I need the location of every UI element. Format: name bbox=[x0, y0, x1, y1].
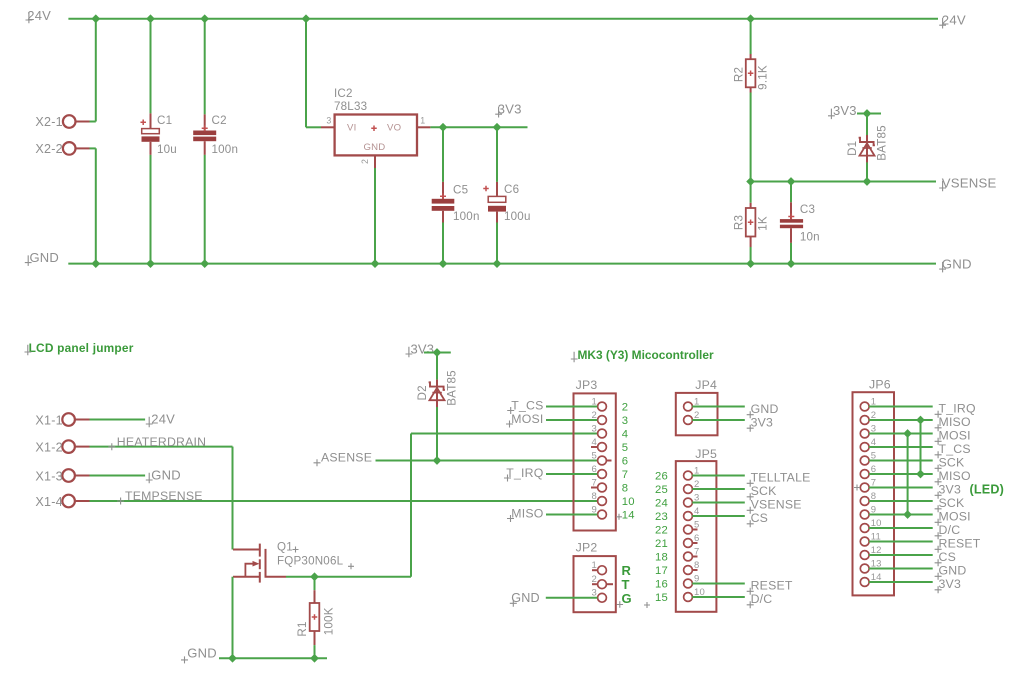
svg-text:GND: GND bbox=[939, 564, 967, 578]
svg-text:MOSI: MOSI bbox=[939, 510, 971, 524]
svg-text:3: 3 bbox=[326, 116, 331, 126]
svg-text:15: 15 bbox=[655, 592, 668, 604]
svg-text:JP3: JP3 bbox=[576, 378, 598, 392]
svg-text:16: 16 bbox=[655, 579, 668, 591]
svg-text:JP2: JP2 bbox=[576, 540, 598, 554]
svg-text:100u: 100u bbox=[504, 210, 531, 223]
svg-text:FQP30N06L: FQP30N06L bbox=[277, 554, 344, 567]
svg-text:TELLTALE: TELLTALE bbox=[751, 471, 811, 485]
svg-text:24V: 24V bbox=[27, 8, 51, 23]
svg-text:SCK: SCK bbox=[939, 496, 965, 510]
svg-text:X2-2: X2-2 bbox=[35, 142, 62, 156]
svg-text:18: 18 bbox=[655, 552, 668, 564]
svg-text:100n: 100n bbox=[212, 143, 239, 156]
svg-text:X2-1: X2-1 bbox=[35, 115, 62, 129]
svg-text:CS: CS bbox=[751, 511, 768, 525]
svg-text:JP5: JP5 bbox=[695, 447, 717, 461]
svg-text:100K: 100K bbox=[322, 607, 335, 635]
svg-text:GND: GND bbox=[364, 142, 386, 153]
svg-text:GND: GND bbox=[187, 645, 217, 660]
svg-text:MISO: MISO bbox=[511, 506, 543, 520]
svg-text:4: 4 bbox=[622, 429, 628, 441]
svg-text:21: 21 bbox=[655, 538, 668, 550]
svg-text:MK3 (Y3) Micocontroller: MK3 (Y3) Micocontroller bbox=[578, 348, 714, 362]
svg-text:9.1K: 9.1K bbox=[757, 65, 770, 90]
svg-text:2: 2 bbox=[360, 159, 370, 164]
svg-text:TEMPSENSE: TEMPSENSE bbox=[125, 489, 203, 503]
svg-text:C6: C6 bbox=[504, 183, 519, 196]
svg-text:24: 24 bbox=[655, 498, 668, 510]
svg-text:R: R bbox=[622, 563, 632, 578]
svg-text:24V: 24V bbox=[151, 411, 175, 426]
svg-text:D1: D1 bbox=[846, 141, 859, 156]
svg-text:X1-1: X1-1 bbox=[35, 413, 62, 427]
svg-text:8: 8 bbox=[622, 483, 628, 495]
svg-text:SCK: SCK bbox=[939, 456, 965, 470]
svg-text:25: 25 bbox=[655, 484, 668, 496]
svg-text:10u: 10u bbox=[157, 143, 177, 156]
svg-text:C2: C2 bbox=[212, 114, 227, 127]
svg-text:VI: VI bbox=[347, 123, 356, 134]
svg-text:CS: CS bbox=[939, 550, 956, 564]
svg-text:D2: D2 bbox=[416, 385, 429, 400]
svg-text:JP6: JP6 bbox=[869, 378, 891, 392]
svg-text:LCD panel jumper: LCD panel jumper bbox=[29, 341, 134, 355]
svg-text:GND: GND bbox=[30, 250, 60, 265]
svg-text:R3: R3 bbox=[733, 215, 746, 230]
svg-text:T_IRQ: T_IRQ bbox=[506, 466, 543, 480]
svg-text:17: 17 bbox=[655, 565, 668, 577]
svg-text:SCK: SCK bbox=[751, 484, 777, 498]
svg-text:5: 5 bbox=[592, 450, 597, 461]
svg-text:14: 14 bbox=[622, 510, 635, 522]
svg-text:RESET: RESET bbox=[751, 579, 793, 593]
svg-text:T_CS: T_CS bbox=[511, 398, 543, 412]
svg-text:D/C: D/C bbox=[751, 592, 773, 606]
svg-text:23: 23 bbox=[655, 511, 668, 523]
svg-text:D/C: D/C bbox=[939, 523, 961, 537]
svg-text:C3: C3 bbox=[800, 203, 815, 216]
svg-text:22: 22 bbox=[655, 525, 668, 537]
svg-text:3V3: 3V3 bbox=[939, 577, 961, 591]
svg-text:X1-4: X1-4 bbox=[35, 495, 62, 509]
svg-text:10: 10 bbox=[622, 496, 635, 508]
svg-text:26: 26 bbox=[655, 471, 668, 483]
svg-text:7: 7 bbox=[622, 469, 628, 481]
svg-text:MOSI: MOSI bbox=[939, 429, 971, 443]
svg-text:MISO: MISO bbox=[939, 469, 971, 483]
svg-text:MOSI: MOSI bbox=[511, 412, 543, 426]
svg-text:G: G bbox=[622, 591, 632, 606]
svg-text:6: 6 bbox=[622, 456, 628, 468]
svg-text:R1: R1 bbox=[296, 621, 309, 636]
svg-text:GND: GND bbox=[751, 402, 779, 416]
svg-text:Q1: Q1 bbox=[277, 541, 293, 554]
svg-text:5: 5 bbox=[622, 442, 628, 454]
svg-text:3: 3 bbox=[592, 423, 597, 434]
svg-text:3V3: 3V3 bbox=[939, 483, 961, 497]
svg-text:GND: GND bbox=[151, 467, 181, 482]
svg-text:BAT85: BAT85 bbox=[446, 370, 459, 406]
svg-text:RESET: RESET bbox=[939, 537, 981, 551]
svg-text:X1-3: X1-3 bbox=[35, 469, 62, 483]
svg-text:3V3: 3V3 bbox=[411, 341, 435, 356]
svg-text:2: 2 bbox=[622, 402, 628, 414]
svg-text:ASENSE: ASENSE bbox=[321, 451, 372, 465]
svg-text:HEATERDRAIN: HEATERDRAIN bbox=[117, 435, 206, 449]
svg-text:T_CS: T_CS bbox=[939, 442, 971, 456]
svg-text:VO: VO bbox=[387, 123, 401, 134]
svg-text:1: 1 bbox=[420, 116, 425, 126]
svg-text:10n: 10n bbox=[800, 230, 820, 243]
svg-text:C5: C5 bbox=[453, 184, 468, 197]
svg-text:MISO: MISO bbox=[939, 415, 971, 429]
svg-text:100n: 100n bbox=[453, 210, 480, 223]
svg-text:78L33: 78L33 bbox=[334, 100, 367, 113]
svg-text:1K: 1K bbox=[757, 216, 770, 231]
svg-text:X1-2: X1-2 bbox=[35, 441, 62, 455]
svg-text:3V3: 3V3 bbox=[833, 103, 857, 118]
svg-text:3: 3 bbox=[622, 415, 628, 427]
svg-text:GND: GND bbox=[942, 257, 972, 272]
svg-text:IC2: IC2 bbox=[334, 87, 353, 100]
svg-text:8: 8 bbox=[592, 491, 597, 502]
svg-text:R2: R2 bbox=[733, 67, 746, 82]
svg-text:T_IRQ: T_IRQ bbox=[939, 402, 976, 416]
svg-text:3V3: 3V3 bbox=[751, 415, 773, 429]
svg-text:JP4: JP4 bbox=[695, 378, 717, 392]
svg-text:(LED): (LED) bbox=[970, 483, 1005, 497]
svg-text:VSENSE: VSENSE bbox=[751, 498, 802, 512]
svg-text:VSENSE: VSENSE bbox=[942, 175, 997, 190]
svg-text:C1: C1 bbox=[157, 114, 172, 127]
svg-text:BAT85: BAT85 bbox=[876, 125, 889, 161]
